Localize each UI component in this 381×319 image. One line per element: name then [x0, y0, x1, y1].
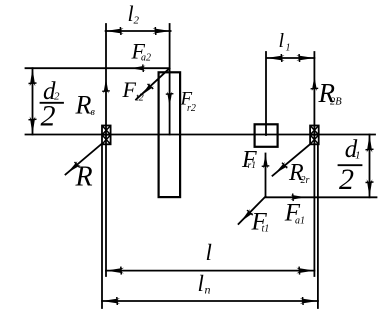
- svg-text:r2: r2: [187, 103, 196, 114]
- svg-text:2: 2: [339, 163, 354, 196]
- svg-text:l: l: [206, 240, 212, 265]
- svg-text:R: R: [75, 91, 92, 120]
- svg-text:F: F: [122, 77, 137, 102]
- svg-text:l: l: [198, 271, 204, 296]
- svg-text:a1: a1: [295, 216, 305, 227]
- svg-text:l: l: [279, 30, 285, 52]
- svg-text:2: 2: [134, 15, 140, 27]
- svg-text:2B: 2B: [330, 97, 342, 108]
- svg-text:n: n: [205, 283, 211, 297]
- svg-text:t1: t1: [262, 224, 270, 235]
- svg-text:1: 1: [286, 43, 291, 54]
- svg-text:t2: t2: [136, 93, 144, 104]
- svg-text:в: в: [91, 107, 96, 118]
- svg-text:1: 1: [355, 150, 361, 162]
- svg-text:R: R: [75, 162, 93, 193]
- svg-text:a2: a2: [141, 53, 151, 64]
- svg-text:r1: r1: [248, 161, 256, 171]
- svg-text:2: 2: [41, 100, 56, 133]
- svg-text:2r: 2r: [301, 175, 310, 186]
